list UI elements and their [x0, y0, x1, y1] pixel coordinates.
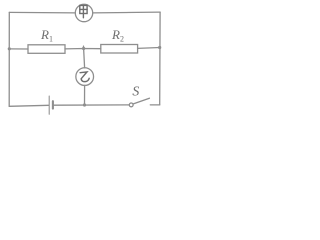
- svg-text:R2: R2: [111, 27, 124, 44]
- svg-text:S: S: [132, 84, 139, 99]
- svg-text:R1: R1: [40, 27, 53, 44]
